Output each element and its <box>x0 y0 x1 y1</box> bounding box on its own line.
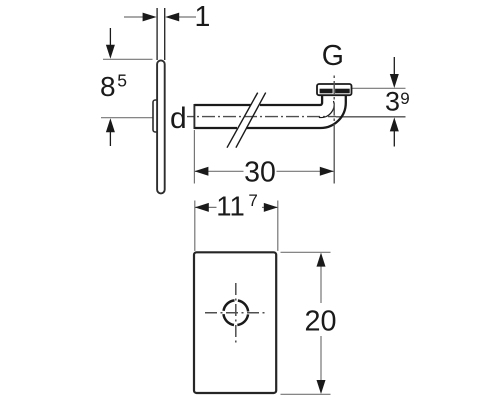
svg-text:11: 11 <box>216 190 245 221</box>
svg-text:5: 5 <box>117 71 127 91</box>
svg-text:9: 9 <box>400 89 409 108</box>
svg-text:d: d <box>170 102 187 135</box>
svg-text:1: 1 <box>195 1 211 33</box>
svg-text:7: 7 <box>248 191 257 210</box>
svg-text:8: 8 <box>100 71 116 102</box>
svg-text:30: 30 <box>244 157 276 189</box>
svg-text:20: 20 <box>304 306 336 338</box>
svg-text:G: G <box>322 40 344 72</box>
svg-text:3: 3 <box>385 87 400 117</box>
